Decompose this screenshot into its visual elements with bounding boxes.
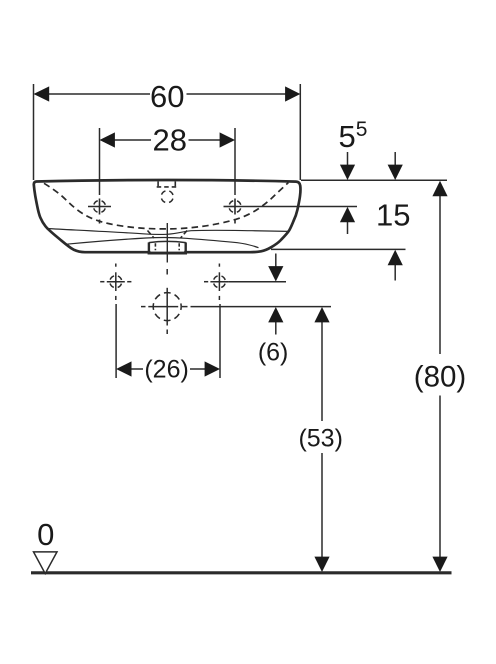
dimension 60 line bbox=[47, 93, 150, 95]
svg-text:28: 28 bbox=[153, 123, 187, 158]
dimension 26 arrow right bbox=[205, 361, 220, 376]
overflow slot tab left bbox=[157, 182, 159, 187]
datum triangle symbol bbox=[34, 552, 58, 574]
siphon hole crosshair bbox=[141, 269, 188, 334]
dimension 5.5 arrow down bbox=[347, 152, 349, 170]
dimension 15 arrow down bbox=[394, 152, 396, 170]
dimension 15 arrow up bbox=[394, 262, 396, 281]
dimension 28 arrow right bbox=[220, 132, 235, 147]
dimension 26 line bbox=[130, 368, 144, 370]
drain hidden slant right bbox=[181, 231, 188, 239]
overflow slot dashed bottom bbox=[157, 186, 177, 188]
basin bottom reference line right bbox=[271, 248, 406, 250]
drain boss right side bbox=[184, 242, 186, 254]
dimension 6 arrow down bbox=[275, 254, 277, 272]
dimension 28 line bbox=[113, 139, 151, 141]
basin interior dashed bowl curve bbox=[44, 183, 288, 229]
dimension 60 arrow left bbox=[34, 86, 50, 101]
dimension 26 extension line right bbox=[219, 304, 221, 378]
dimension 80 vertical line lower bbox=[439, 396, 441, 561]
dimension 53 vertical line upper bbox=[321, 319, 323, 421]
dimension 6 arrow up bbox=[275, 319, 277, 335]
svg-text:15: 15 bbox=[376, 197, 410, 232]
drain hidden vertical right bbox=[178, 243, 180, 250]
drain hidden vertical left bbox=[154, 243, 156, 250]
mounting hole crosshair right bbox=[204, 264, 228, 301]
overflow slot tab right bbox=[174, 182, 176, 187]
drain boss top edge bbox=[149, 241, 186, 242]
dimension 28 extension line right bbox=[234, 128, 236, 195]
drain boss bottom edge bbox=[148, 252, 187, 255]
drain boss left side bbox=[148, 242, 150, 254]
centerline through drain bbox=[166, 223, 168, 263]
tap hole crosshair left: dashed circle bbox=[94, 201, 106, 213]
dimension 60 arrow right bbox=[285, 86, 300, 101]
svg-text:(53): (53) bbox=[298, 425, 342, 453]
dimension 80 vertical line upper bbox=[439, 193, 441, 354]
rim top reference line right bbox=[301, 179, 447, 181]
svg-text:0: 0 bbox=[37, 517, 54, 552]
tap hole crosshair left: horizontal arm bbox=[88, 199, 111, 224]
drain hidden slant left bbox=[148, 231, 155, 239]
dimension 80 arrow down bbox=[432, 557, 447, 572]
dimension 60 extension line left bbox=[33, 84, 35, 180]
drain boss interior mask bbox=[150, 244, 184, 252]
tap hole crosshair right: arms bbox=[224, 199, 236, 224]
mounting hole level reference line bbox=[228, 281, 286, 283]
dimension 80 arrow up bbox=[432, 181, 447, 196]
svg-text:60: 60 bbox=[150, 79, 184, 114]
siphon level reference line bbox=[191, 306, 332, 308]
dimension 53 arrow down bbox=[314, 557, 329, 572]
dimension 28 arrow left bbox=[100, 132, 115, 147]
basin apron upper crease line bbox=[46, 229, 288, 235]
basin apron lower crease line bbox=[67, 238, 259, 248]
dimension 26 arrow left bbox=[116, 361, 131, 376]
floor baseline bbox=[31, 571, 452, 574]
overflow dashed circle bbox=[161, 191, 173, 203]
dimension 26 extension line left bbox=[115, 304, 117, 378]
dimension 5.5 arrow up bbox=[347, 217, 349, 234]
dimension 28 extension line left bbox=[99, 128, 101, 195]
dimension 60 extension line right bbox=[299, 84, 301, 180]
svg-text:(80): (80) bbox=[414, 360, 466, 393]
dimension 53 vertical line lower bbox=[321, 453, 323, 560]
tap hole crosshair right: dashed circle bbox=[229, 201, 241, 213]
svg-text:(26): (26) bbox=[144, 356, 188, 384]
reference line tap hole level to 5.5 arrow bbox=[235, 206, 357, 208]
svg-text:55: 55 bbox=[339, 118, 368, 154]
washbasin outer outline bbox=[34, 180, 301, 252]
dimension 53 arrow up bbox=[314, 307, 329, 322]
svg-text:(6): (6) bbox=[258, 339, 289, 367]
mounting hole crosshair left bbox=[100, 264, 131, 301]
